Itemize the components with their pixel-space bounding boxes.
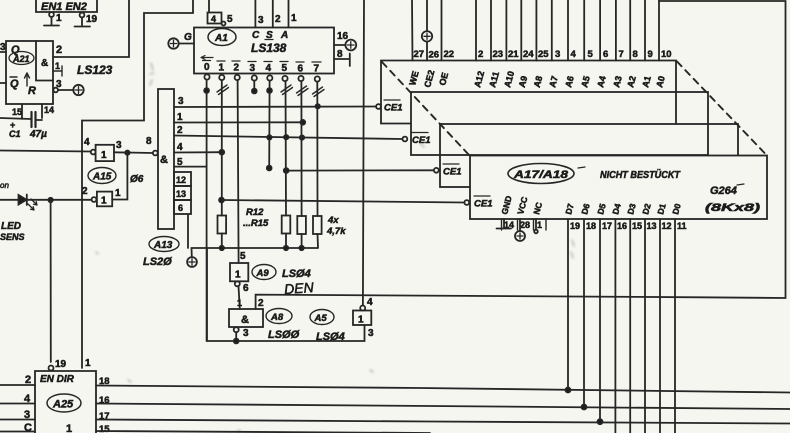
- svg-text:A8: A8: [532, 75, 545, 89]
- svg-text:R12: R12: [246, 207, 264, 218]
- svg-text:14: 14: [44, 105, 54, 115]
- svg-text:5: 5: [282, 63, 288, 74]
- svg-text:A9: A9: [256, 268, 270, 279]
- svg-text:7: 7: [314, 64, 320, 75]
- svg-text:4,7k: 4,7k: [326, 226, 346, 237]
- DEN wire from A8 pin2 along right to top: [256, 1, 786, 309]
- svg-text:EN1 EN2: EN1 EN2: [41, 1, 87, 13]
- svg-text:1: 1: [115, 188, 121, 199]
- wire to A15 pin4: [0, 151, 91, 152]
- pin 1 stub: [53, 66, 62, 76]
- svg-text:5: 5: [227, 14, 233, 25]
- svg-text:3: 3: [178, 96, 184, 107]
- svg-text:3: 3: [368, 328, 374, 339]
- junction wire2-output6: [300, 135, 304, 139]
- svg-text:18: 18: [586, 221, 596, 231]
- svg-text:CE1: CE1: [412, 135, 430, 146]
- svg-text:WE: WE: [407, 70, 420, 87]
- svg-text:8: 8: [633, 49, 638, 60]
- svg-text:LSØ4: LSØ4: [316, 331, 345, 343]
- arrow up: [25, 73, 30, 86]
- svg-text:CE2: CE2: [422, 69, 436, 89]
- node junction: [125, 151, 129, 155]
- inverter A9 box: [230, 263, 248, 281]
- svg-text:CE1: CE1: [443, 167, 461, 178]
- output 0 wire down to gates area: [206, 80, 208, 341]
- output 6 wire with strap slash: [300, 81, 302, 216]
- output 2 wire down to A9: [238, 80, 239, 263]
- pin 14 ground: [497, 219, 512, 229]
- svg-text:11: 11: [677, 221, 687, 231]
- svg-text:3: 3: [0, 42, 6, 53]
- pin 26 CE2 wire with power plus: [426, 0, 428, 61]
- junction D7-bus18: [566, 388, 571, 393]
- svg-text:12: 12: [176, 175, 186, 185]
- output 1 wire with strap slash: [221, 80, 223, 215]
- RAM IC4 (front, A17/A18) box: [470, 156, 767, 220]
- svg-text:4: 4: [177, 142, 183, 153]
- svg-text:2: 2: [25, 374, 31, 386]
- designator A5: [310, 310, 334, 325]
- RAM IC3 box: [440, 124, 738, 187]
- wire CE1 of IC4 from output1: [222, 200, 465, 203]
- IC1 CE1 pin: [376, 104, 381, 109]
- scan smudges: [96, 63, 574, 432]
- svg-text:LS138: LS138: [251, 41, 287, 55]
- svg-text:13: 13: [176, 189, 186, 199]
- svg-text:4: 4: [367, 297, 373, 308]
- svg-text:A9: A9: [517, 75, 530, 89]
- output 4 wire: [268, 81, 270, 168]
- pin 3 output bubble: [53, 88, 58, 93]
- Qbar left stub: [0, 82, 6, 84]
- pin 19 bubble: [49, 366, 54, 371]
- designator A17/A18: [508, 164, 574, 184]
- svg-text:4: 4: [266, 63, 272, 74]
- svg-text:A25: A25: [52, 399, 74, 411]
- designator A15: [88, 168, 116, 184]
- wire pin6 notch to rail: [187, 215, 189, 248]
- output 7 wire with strap slash: [316, 82, 318, 216]
- svg-text:A11: A11: [487, 70, 501, 88]
- svg-text:LSØØ: LSØØ: [268, 329, 300, 341]
- wire junction down to A15b out: [112, 153, 127, 200]
- svg-text:A6: A6: [563, 75, 576, 89]
- IC EN1/EN2 box (cut at top): [36, 0, 97, 12]
- power plus symbol: [73, 85, 83, 95]
- wire top to A21 pin2: [53, 0, 129, 57]
- svg-text:2: 2: [234, 63, 240, 74]
- svg-text:G264: G264: [710, 185, 737, 197]
- pin 8 bubble: [153, 151, 158, 156]
- svg-text:A12: A12: [472, 70, 486, 89]
- svg-text:1: 1: [101, 196, 107, 207]
- IC2 CE1 pin: [403, 137, 408, 142]
- dashed stack diagonal right: [677, 62, 766, 155]
- wire A9 out to A8 pin1: [239, 286, 240, 309]
- output bubbles: [204, 74, 209, 79]
- pin 15 stub: [21, 104, 23, 118]
- svg-text:3: 3: [116, 140, 122, 151]
- svg-text:17: 17: [602, 221, 612, 231]
- svg-text:3: 3: [555, 49, 560, 60]
- svg-text:7: 7: [619, 49, 624, 60]
- wire bottom rail: [207, 248, 365, 341]
- pin 1 bubble: [49, 12, 54, 17]
- svg-text:3: 3: [24, 409, 30, 421]
- pin 1 wire: [288, 0, 290, 28]
- svg-text:3: 3: [250, 63, 256, 74]
- ground pin1: [44, 17, 59, 26]
- svg-text:A8: A8: [270, 312, 284, 323]
- junction D5-bus17: [598, 419, 603, 424]
- wire diode to A15 pin2, junction: [27, 199, 91, 201]
- svg-text:22: 22: [444, 49, 455, 60]
- NAND A13 tall box: [158, 89, 174, 229]
- address pin wires 2,23,21,24,25,3,4,5,6,7,8,9,10: [475, 0, 477, 61]
- LED diode D1: [0, 199, 18, 201]
- pin 14 stub: [41, 104, 43, 118]
- svg-text:(8Kx8): (8Kx8): [705, 202, 761, 214]
- bus wire 18: [96, 386, 790, 393]
- svg-text:CE1: CE1: [384, 103, 402, 114]
- IC3 CE1 pin: [434, 168, 439, 173]
- LED arrows: [28, 199, 37, 210]
- resistor R15: [313, 216, 322, 234]
- svg-text:A15: A15: [92, 172, 112, 183]
- svg-text:4: 4: [24, 393, 31, 405]
- resistor R12: [218, 216, 227, 234]
- designator A1: [208, 29, 236, 46]
- svg-text:23: 23: [493, 49, 504, 60]
- svg-text:6: 6: [243, 283, 249, 294]
- svg-text:&: &: [241, 314, 249, 326]
- svg-text:C: C: [24, 422, 32, 433]
- decoder A1 box: [194, 28, 334, 74]
- svg-text:3: 3: [56, 79, 62, 90]
- svg-text:A4: A4: [595, 75, 608, 89]
- svg-text:6: 6: [603, 49, 608, 60]
- common rail under resistors: [192, 234, 319, 249]
- A8 output bubble: [234, 327, 239, 332]
- designator A8: [266, 309, 292, 324]
- svg-text:1: 1: [56, 13, 62, 24]
- rotated signal names row IC1: [407, 69, 667, 89]
- svg-text:9: 9: [648, 49, 653, 60]
- svg-text:Ø6: Ø6: [130, 174, 144, 185]
- svg-text:4: 4: [211, 14, 216, 24]
- svg-text:A10: A10: [502, 70, 516, 89]
- svg-text:26: 26: [429, 50, 440, 61]
- svg-text:A17/A18: A17/A18: [513, 169, 569, 181]
- svg-text:27: 27: [414, 49, 425, 60]
- RAM IC1 (back) box: [381, 61, 676, 124]
- junction wire4-output1: [219, 150, 224, 155]
- svg-text:1: 1: [85, 358, 91, 369]
- svg-text:OE: OE: [437, 71, 450, 86]
- svg-text:LS2Ø: LS2Ø: [143, 256, 172, 268]
- junction wire1-output6: [300, 120, 305, 125]
- designator A13: [149, 237, 179, 252]
- svg-text:A0: A0: [654, 75, 667, 89]
- svg-text:A1: A1: [214, 33, 228, 44]
- svg-text:CE1: CE1: [474, 199, 492, 210]
- svg-text:19: 19: [55, 359, 67, 370]
- svg-text:C: C: [252, 30, 260, 41]
- svg-text:A5: A5: [314, 313, 328, 324]
- top pin number labels: [414, 49, 672, 61]
- junction wire2-output5: [284, 135, 288, 139]
- svg-text:1: 1: [235, 270, 241, 281]
- svg-text:24: 24: [523, 49, 534, 60]
- wire down to A25 pin19: [50, 200, 52, 362]
- svg-text:1: 1: [177, 112, 183, 123]
- svg-text:4: 4: [571, 49, 577, 60]
- pin 3 wire: [254, 0, 256, 28]
- svg-text:8: 8: [146, 136, 152, 147]
- RAM IC2 box: [411, 92, 708, 155]
- svg-text:A2: A2: [625, 75, 638, 89]
- pin 1 stub: [535, 219, 537, 229]
- svg-text:5: 5: [240, 251, 246, 262]
- wire from top edge down to A5 input: [363, 0, 364, 306]
- svg-text:6: 6: [178, 203, 183, 213]
- svg-text:12: 12: [662, 221, 672, 231]
- svg-text:C1: C1: [9, 129, 21, 139]
- svg-text:EN DIR: EN DIR: [40, 374, 75, 385]
- svg-text:2: 2: [177, 125, 183, 136]
- wire from top down left side to A25 pin1: [82, 0, 193, 368]
- A21 internal sub-box: [36, 41, 53, 81]
- svg-text:LS123: LS123: [77, 63, 113, 77]
- data wires D7..D0 going down: [567, 219, 569, 390]
- svg-text:2: 2: [258, 298, 264, 309]
- svg-text:...R15: ...R15: [243, 218, 269, 229]
- pin 19 bubble: [80, 13, 85, 18]
- svg-text:21: 21: [508, 49, 519, 60]
- svg-text:2: 2: [478, 49, 483, 60]
- designator A25: [47, 394, 81, 412]
- svg-text:A7: A7: [547, 75, 560, 89]
- pin 3 (left stub): [0, 51, 6, 53]
- svg-text:3: 3: [258, 15, 264, 26]
- bottom pin cell ticks: [502, 219, 547, 230]
- wire A15a out to A13 pin8: [114, 151, 153, 154]
- svg-text:1: 1: [55, 61, 60, 71]
- output 3 stub: [253, 81, 255, 91]
- bottom pin number labels: [504, 220, 687, 231]
- inverter A5 box: [353, 311, 371, 326]
- svg-text:LSØ4: LSØ4: [282, 268, 311, 280]
- inverter A15a box: [96, 145, 114, 161]
- svg-text:28: 28: [520, 220, 530, 230]
- output labels 0-7 with overbars: [201, 56, 213, 60]
- svg-text:on: on: [0, 181, 9, 190]
- svg-text:1: 1: [101, 150, 107, 161]
- svg-text:4: 4: [84, 137, 90, 148]
- svg-text:&: &: [160, 154, 168, 166]
- pin 22 OE wire: [441, 0, 443, 61]
- NAND A8 box: [229, 309, 263, 327]
- inverter A15b box: [97, 192, 112, 207]
- svg-text:1: 1: [66, 423, 72, 433]
- pin 4 top box: [208, 0, 210, 13]
- pin notch boxes 12/13/6: [174, 172, 191, 186]
- svg-text:2: 2: [82, 186, 88, 197]
- svg-text:A: A: [280, 30, 288, 41]
- wire to plus: [58, 89, 73, 91]
- designator A21: [9, 52, 34, 65]
- svg-text:4x: 4x: [327, 215, 339, 226]
- svg-text:Q: Q: [10, 78, 19, 90]
- dashed stack diagonal left: [382, 62, 470, 156]
- junction D6-bus16: [582, 405, 587, 410]
- output 5 wire with strap slash: [285, 81, 288, 215]
- pin 27 WE wire: [411, 0, 414, 61]
- bus wire 16: [96, 404, 790, 410]
- svg-text:&: &: [41, 58, 48, 69]
- pin 28 power plus: [519, 219, 521, 231]
- svg-text:1: 1: [537, 220, 542, 230]
- pin 2 wire: [272, 0, 274, 28]
- left pins 2,4,3,C: [0, 384, 35, 386]
- svg-text:G: G: [184, 32, 192, 43]
- svg-text:A3: A3: [611, 75, 624, 89]
- junction on wire3 at output7: [316, 104, 320, 108]
- svg-text:1: 1: [291, 13, 297, 24]
- svg-text:25: 25: [538, 49, 549, 60]
- svg-text:1: 1: [358, 315, 364, 326]
- svg-text:A13: A13: [153, 240, 173, 251]
- resistor R14: [297, 216, 306, 234]
- resistor R13: [282, 216, 291, 234]
- svg-text:A5: A5: [579, 75, 592, 89]
- bus wire 15: [96, 431, 430, 433]
- svg-text:16: 16: [617, 221, 627, 231]
- transceiver A25 box: [35, 371, 96, 433]
- wire CE1 of IC3 from output5: [286, 169, 434, 171]
- ground pin19: [75, 18, 91, 27]
- svg-text:NICHT BESTÜCKT: NICHT BESTÜCKT: [600, 168, 681, 181]
- svg-text:15: 15: [12, 107, 22, 117]
- svg-text:6: 6: [298, 64, 304, 75]
- svg-text:2: 2: [56, 44, 62, 56]
- svg-text:R: R: [28, 85, 36, 97]
- capacitor C1 47u: [0, 118, 31, 119]
- svg-text:19: 19: [570, 221, 580, 231]
- node junction to A25 pin19: [48, 198, 52, 202]
- power plus below A13: [191, 248, 193, 257]
- svg-text:LED: LED: [1, 221, 21, 232]
- svg-text:5: 5: [588, 49, 594, 60]
- svg-text:SENS: SENS: [0, 232, 25, 242]
- rotated pin names row IC4: [499, 195, 683, 216]
- designator A9: [252, 265, 276, 280]
- svg-text:2: 2: [275, 14, 281, 25]
- svg-text:1: 1: [237, 298, 242, 308]
- svg-text:10: 10: [661, 49, 672, 60]
- bus wire 17: [96, 420, 790, 424]
- svg-text:15: 15: [632, 221, 642, 231]
- monoflop U A21 box: [6, 41, 53, 104]
- svg-text:A21: A21: [12, 54, 30, 64]
- svg-text:47µ: 47µ: [29, 129, 47, 140]
- svg-text:0: 0: [204, 62, 210, 73]
- IC4 CE1 pin: [464, 200, 469, 205]
- svg-text:13: 13: [647, 221, 657, 231]
- svg-text:19: 19: [86, 14, 98, 25]
- svg-text:3: 3: [243, 328, 249, 339]
- svg-text:1: 1: [219, 63, 225, 74]
- svg-text:A1: A1: [640, 75, 653, 89]
